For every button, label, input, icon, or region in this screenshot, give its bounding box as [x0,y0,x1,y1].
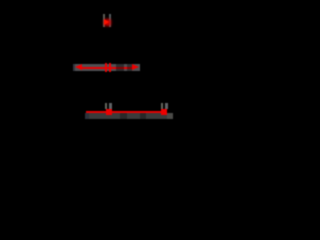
wire: middle gray track [73,64,140,71]
node: middle double-bar marker right [109,63,111,72]
wire: bottom track dark patch 2 [140,113,146,119]
wire: middle track dark patch 2 [127,64,132,71]
node: right arrowhead [132,64,139,70]
wire: middle track dark patch 1 [116,64,125,71]
node A: top handle right gray bar [109,14,111,27]
node: left arrowhead [75,64,82,70]
node C: right grip bar 1 [161,103,164,109]
node B: left grip bar 1 [105,103,108,109]
node C: right red square marker [161,109,167,115]
node: middle double-bar marker left [105,63,107,72]
node A: top handle red arrow [104,19,109,25]
wire: bottom track light right block [167,113,173,119]
wire: bottom red line [86,111,165,113]
node A: top handle left gray bar [103,14,105,27]
node A: top handle red marker glow [104,19,111,26]
wire: bottom track dark patch 1 [120,113,127,119]
node B: left red square marker [106,109,112,115]
node C: right grip bar 2 [165,103,168,109]
wire: bottom gray track below line [85,113,172,119]
wire: middle track dark left edge [73,64,75,71]
wire: red horizontal line of double arrow [79,67,134,69]
wire: bottom track dark left block [85,113,89,119]
node B: left grip bar 2 [109,103,112,109]
